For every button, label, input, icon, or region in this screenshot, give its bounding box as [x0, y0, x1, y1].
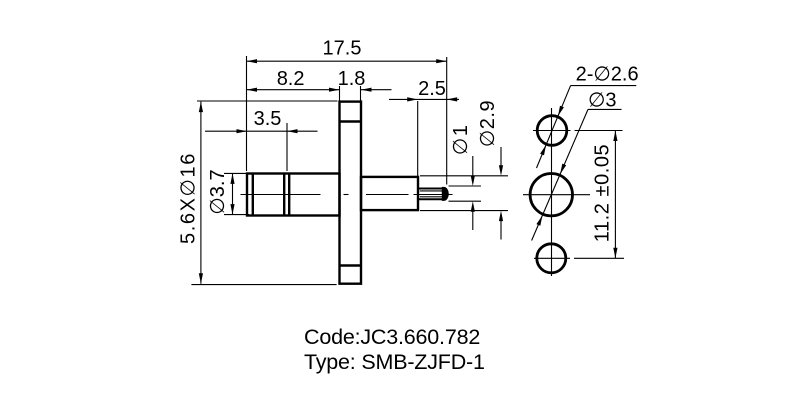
- svg-text:11.2 ±0.05: 11.2 ±0.05: [592, 144, 614, 242]
- svg-text:8.2: 8.2: [277, 68, 305, 90]
- dimension 5.6X diam 16 flange: [178, 101, 338, 285]
- svg-text:5.6X∅16: 5.6X∅16: [178, 152, 200, 244]
- svg-text:1.8: 1.8: [338, 68, 366, 90]
- svg-text:∅3.7: ∅3.7: [207, 169, 229, 214]
- svg-text:3.5: 3.5: [254, 108, 282, 130]
- dimension 11.2 +/-0.05 hole spacing: [592, 131, 618, 259]
- bottom mounting hole circle: [537, 244, 566, 273]
- knurl groove lines: [284, 174, 289, 216]
- dimension 8.2: [247, 68, 340, 92]
- dimension 2.5 pin protrusion: [389, 78, 459, 176]
- dimension 17.5 overall length: [247, 38, 447, 185]
- top mounting hole centerline: [533, 130, 623, 132]
- rear barrel (diam 2.9): [361, 177, 418, 210]
- center pin (diam 1) with rounded solder tip: [419, 187, 448, 200]
- svg-text:Type: SMB-ZJFD-1: Type: SMB-ZJFD-1: [304, 350, 485, 374]
- svg-text:2.5: 2.5: [418, 78, 446, 100]
- svg-text:Code:JC3.660.782: Code:JC3.660.782: [304, 325, 480, 349]
- svg-text:∅3: ∅3: [588, 90, 617, 112]
- dimension diam 3.7: [207, 169, 249, 214]
- bottom mounting hole centerline: [534, 257, 624, 259]
- leader 2-diam 2.6 mounting holes: [537, 64, 639, 168]
- svg-text:2-∅2.6: 2-∅2.6: [576, 64, 639, 86]
- dimension 1.8 flange thickness: [338, 68, 392, 101]
- face view vertical centerline: [551, 108, 553, 276]
- connector left body (SMB interface, diam 3.7 section): [247, 174, 340, 216]
- svg-text:∅2.9: ∅2.9: [477, 100, 499, 147]
- connector centerline (side view): [241, 194, 453, 196]
- middle hole centerline: [523, 194, 590, 196]
- svg-text:17.5: 17.5: [323, 38, 362, 60]
- svg-text:∅1: ∅1: [450, 124, 472, 156]
- dimension diam 2.9 barrel: [420, 100, 508, 240]
- middle hole circle (diam 3): [530, 174, 572, 216]
- dimension diam 1 pin: [449, 124, 482, 230]
- top mounting hole circle: [537, 116, 567, 146]
- dimension 3.5: [205, 108, 318, 171]
- mounting flange (16 across flats): [340, 102, 362, 284]
- leader diam 3 center hole: [532, 90, 622, 241]
